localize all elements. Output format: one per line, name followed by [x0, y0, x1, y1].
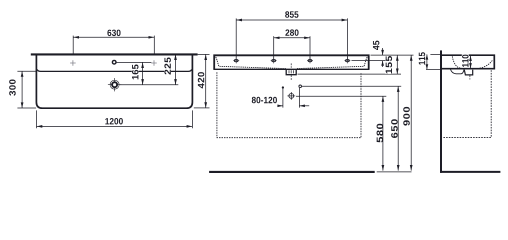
dimension 155 (front view) [298, 55, 414, 74]
dimension 420 (plan view) [194, 54, 210, 108]
floor line (front view) [209, 171, 375, 173]
tap hole 4 (front view) [344, 57, 350, 63]
wall outlet circle (front view) [299, 85, 302, 88]
hidden bowl contour left (front view) [216, 57, 287, 69]
drain fitting (side view) [464, 70, 472, 75]
installation zone dashed rectangle (front view) [217, 72, 361, 137]
dimension 225 (plan view) [164, 54, 177, 84]
dimension 580 (front view) [296, 96, 386, 170]
washbasin bottom edge (front view) [213, 68, 369, 70]
faucet position cross right (plan view) [151, 60, 157, 66]
dimension 165 (plan view) [116, 62, 178, 84]
drain box (front view) [286, 69, 296, 74]
dimension 280 (front view) [274, 29, 310, 59]
hidden bowl profile dashed (side view) [452, 56, 492, 68]
dimension 650 (front view) [302, 86, 401, 170]
washbasin body outline (front view) [214, 55, 369, 69]
tap hole 1 (front view) [233, 57, 239, 63]
washbasin outer outline (plan view) [36, 55, 192, 108]
drain crosshair (front view) [287, 92, 295, 100]
dimension 115 (side view) [419, 52, 441, 69]
tap hole 2 (front view) [271, 57, 277, 63]
wall line behind basin (plan view) [31, 53, 198, 55]
dimension 80-120 (front view) [252, 86, 309, 107]
overflow hole (plan view) [112, 60, 116, 64]
dimension 110 (side view) [462, 55, 472, 69]
dimension 630 (plan view) [73, 30, 154, 54]
floor extension line (front view) [377, 171, 412, 173]
wall line (side view) [440, 50, 442, 172]
dimension 1200 (plan view) [37, 110, 193, 128]
bowl deck edge line (plan view) [37, 70, 191, 72]
floor line (side view) [440, 171, 500, 173]
faucet position cross left (plan view) [70, 60, 76, 66]
drain pipe stub dashed (side view) [469, 76, 471, 80]
bowl underside bulge (side view) [451, 69, 465, 73]
dimension 45 (front view) [352, 41, 386, 67]
drain centre axis dashed (front view) [290, 63, 292, 80]
dimension 900 (front view) [403, 55, 412, 171]
washbasin body outline (side view) [442, 55, 494, 68]
hidden bowl contour right (front view) [296, 57, 367, 69]
dimension 855 (front view) [236, 11, 347, 59]
drain symbol (plan view) [108, 78, 121, 91]
hidden front face dashed (side view) [443, 70, 491, 137]
tap hole 3 (front view) [307, 57, 313, 63]
dimension 300 (plan view) [9, 71, 36, 108]
